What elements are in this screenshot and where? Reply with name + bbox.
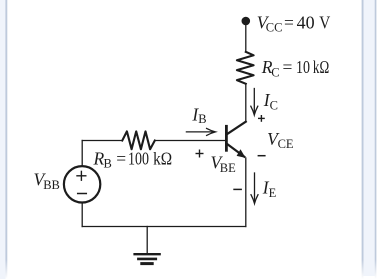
label IC — [263, 90, 278, 112]
svg-text:kΩ: kΩ — [153, 148, 172, 168]
ground bar 2 — [138, 258, 155, 261]
svg-text:V: V — [319, 12, 330, 32]
base wire from corner to RB — [82, 140, 122, 142]
wire emitter to bottom rail — [245, 158, 247, 227]
label VCC = 40 V — [257, 12, 331, 34]
svg-text:CC: CC — [266, 21, 283, 35]
bottom rail wire — [82, 226, 246, 228]
svg-text:C: C — [270, 98, 278, 112]
svg-text:10: 10 — [296, 57, 310, 77]
svg-text:kΩ: kΩ — [313, 57, 329, 77]
wire left corner down to source top — [81, 141, 83, 166]
current arrow IB — [186, 128, 215, 135]
label RC = 10 kOhm — [261, 57, 329, 79]
plus sign VBE — [196, 150, 204, 158]
label RB = 100 kOhm — [93, 148, 173, 170]
label IB — [191, 104, 206, 126]
svg-text:B: B — [198, 112, 206, 126]
label VBE — [211, 153, 237, 175]
label VBB — [34, 170, 60, 192]
svg-text:E: E — [269, 186, 277, 200]
source plus sign — [77, 171, 86, 180]
wire source bottom to rail — [81, 203, 83, 226]
svg-text:40: 40 — [297, 12, 315, 32]
transistor Q1 collector lead — [228, 122, 246, 134]
source minus sign — [78, 193, 87, 195]
label IE — [262, 178, 277, 200]
resistor RC — [237, 52, 254, 84]
ground stem — [146, 227, 148, 254]
current arrow IE — [251, 173, 258, 204]
node VCC dot — [242, 17, 251, 26]
svg-text:BE: BE — [220, 161, 236, 175]
svg-text:=: = — [116, 148, 126, 168]
base wire from RB to base — [155, 140, 225, 142]
current arrow IC — [251, 89, 258, 116]
transistor Q1 emitter lead — [228, 144, 245, 156]
plus sign VCE — [258, 115, 265, 122]
svg-text:B: B — [104, 157, 112, 171]
label VCE — [267, 129, 294, 151]
svg-text:=: = — [283, 57, 293, 77]
ground bar 3 — [142, 262, 152, 265]
svg-text:100: 100 — [128, 148, 149, 168]
voltage source VBB circle — [64, 166, 100, 202]
transistor Q1 base bar — [225, 126, 228, 150]
minus sign VCE — [258, 155, 266, 157]
svg-text:CE: CE — [278, 137, 294, 151]
ground bar 1 — [135, 253, 160, 255]
wire VCC dot to RC top — [245, 21, 247, 52]
wire RC bottom to collector — [245, 84, 247, 122]
minus sign VBE — [233, 188, 242, 190]
svg-text:=: = — [284, 12, 294, 32]
transistor Q1 emitter arrowhead — [237, 149, 246, 158]
svg-text:C: C — [271, 65, 279, 79]
svg-text:BB: BB — [43, 178, 60, 192]
resistor RB — [122, 131, 155, 149]
